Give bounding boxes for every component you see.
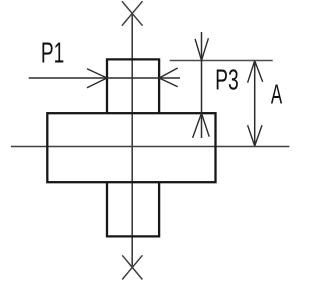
horizontal centerline [11, 146, 290, 148]
arrowhead at top-boss right edge, pointing left [159, 68, 178, 87]
bottom X mark [122, 255, 142, 279]
top boss rectangle [107, 59, 159, 113]
main body rectangle [47, 113, 215, 182]
top X mark [122, 1, 143, 26]
svg-text:P1: P1 [41, 38, 64, 70]
svg-text:P3: P3 [215, 64, 239, 96]
horizontal extension line at top-boss level [170, 60, 273, 62]
arrowhead pointing down at centerline (A bottom) [248, 125, 262, 146]
vertical extension line for P3 [201, 32, 203, 138]
svg-text:A: A [271, 79, 282, 110]
arrowhead pointing up at extension line (A top) [248, 61, 263, 83]
arrowhead pointing down at extension line (P3 top) [195, 38, 208, 60]
arrowhead pointing up at main-body top edge (P3 bottom) [193, 113, 210, 138]
dimension line A (vertical) [254, 61, 256, 146]
arrowhead at top-boss left edge, pointing right [87, 69, 107, 88]
bottom boss rectangle [107, 182, 159, 236]
vertical centerline [131, 13, 133, 267]
dimension line P1 (horizontal) [29, 77, 180, 79]
